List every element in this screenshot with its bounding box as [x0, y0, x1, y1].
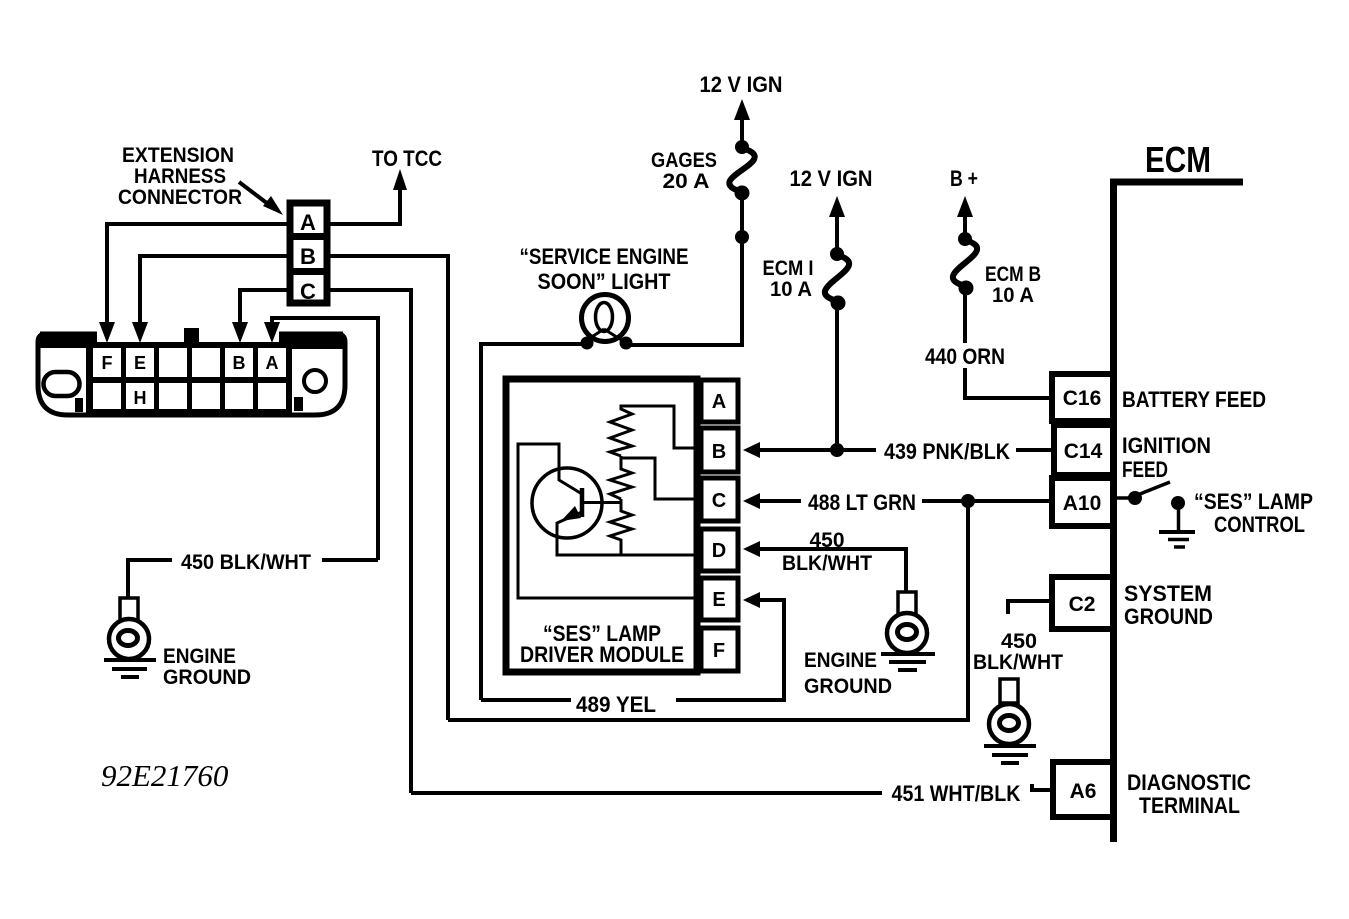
label: ECM I 10 A — [763, 257, 814, 301]
svg-text:TERMINAL: TERMINAL — [1139, 793, 1240, 818]
svg-text:A10: A10 — [1063, 492, 1102, 515]
wire: stack pin B to 12-pin connector pin E (down arrow) — [132, 256, 288, 343]
label: DIAGNOSTIC TERMINAL — [1127, 770, 1251, 818]
label: ENGINE GROUND (module) — [804, 649, 892, 698]
svg-text:10 A: 10 A — [992, 284, 1034, 307]
wire: up arrow to 12 V IGN (ECM I) — [829, 196, 845, 255]
label: "SERVICE ENGINE SOON" LIGHT — [520, 244, 689, 294]
svg-text:A: A — [266, 353, 279, 373]
wire: resistor top to module pin B — [621, 406, 701, 448]
svg-text:450: 450 — [810, 529, 845, 552]
svg-text:488 LT GRN: 488 LT GRN — [808, 490, 916, 515]
svg-text:489 YEL: 489 YEL — [576, 692, 656, 717]
svg-text:TO TCC: TO TCC — [372, 146, 442, 171]
svg-text:C2: C2 — [1069, 593, 1096, 616]
wire: extension connector pin A to TO TCC (with up arrow) — [329, 169, 407, 224]
wire 451 WHT/BLK: extension pin C to ECM pin A6 — [411, 784, 1053, 793]
svg-text:FEED: FEED — [1122, 457, 1168, 482]
svg-text:12 V IGN: 12 V IGN — [790, 166, 873, 191]
svg-text:BATTERY FEED: BATTERY FEED — [1122, 387, 1266, 412]
svg-text:D: D — [712, 540, 726, 562]
svg-text:GAGES: GAGES — [651, 149, 717, 172]
svg-text:440 ORN: 440 ORN — [925, 344, 1005, 369]
label: 450 BLK/WHT (module) — [782, 529, 872, 575]
wire: 450 BLK/WHT label wire (left) — [128, 560, 378, 598]
label: SYSTEM GROUND — [1124, 581, 1213, 629]
svg-text:EXTENSION: EXTENSION — [122, 144, 234, 167]
svg-text:B: B — [300, 244, 316, 269]
svg-text:450 BLK/WHT: 450 BLK/WHT — [181, 551, 311, 574]
wire: stack pin B right to 489/488 junction loop — [329, 256, 448, 720]
wire 489 YEL: module pin E to bulb loop — [481, 592, 784, 700]
ECM pin C14 — [1054, 425, 1113, 475]
switch to ground on A10 ("SES" lamp control) — [1113, 482, 1195, 547]
engine ground symbol G2 — [881, 592, 935, 670]
wire: up arrow to B+ — [957, 196, 973, 240]
label: "SES" LAMP CONTROL — [1194, 489, 1313, 537]
resistor R1 (top, in module) — [610, 406, 632, 456]
ECM pin C2 — [1052, 577, 1113, 629]
fuse ECM I 10 A — [825, 247, 849, 311]
svg-text:12 V IGN: 12 V IGN — [700, 72, 783, 97]
wire 440 ORN: fuse ECM B down to ECM pin C16 — [965, 288, 1052, 398]
svg-text:ECM: ECM — [1145, 139, 1211, 180]
ECM pin A6 — [1053, 762, 1113, 817]
svg-text:B +: B + — [950, 166, 978, 191]
svg-text:B: B — [233, 353, 246, 373]
svg-text:CONNECTOR: CONNECTOR — [118, 186, 242, 209]
svg-text:DRIVER MODULE: DRIVER MODULE — [520, 642, 684, 667]
svg-text:20 A: 20 A — [663, 170, 710, 193]
svg-text:SYSTEM: SYSTEM — [1124, 581, 1212, 606]
module pin B — [701, 428, 738, 472]
transistor Q1 (NPN, in module) — [532, 468, 602, 538]
module pin A — [701, 380, 738, 422]
resistor R2 (middle, in module) — [610, 456, 632, 499]
wire: bulb right leg up to GAGES fuse — [626, 195, 742, 345]
svg-text:F: F — [713, 640, 725, 662]
svg-text:GROUND: GROUND — [163, 666, 251, 689]
svg-text:H: H — [134, 388, 147, 408]
svg-text:CONTROL: CONTROL — [1214, 512, 1305, 537]
svg-text:GROUND: GROUND — [1124, 604, 1213, 629]
svg-text:C: C — [712, 490, 726, 512]
wire: bulb left leg to 489 YEL loop — [481, 344, 587, 700]
wire: transistor emitter / resistor bottom to module pin D — [557, 522, 701, 555]
svg-text:450: 450 — [1001, 630, 1037, 653]
svg-text:SOON” LIGHT: SOON” LIGHT — [538, 269, 672, 294]
pointer arrow to extension harness connector — [239, 182, 283, 215]
svg-text:ENGINE: ENGINE — [804, 649, 877, 672]
svg-text:A: A — [712, 391, 726, 413]
svg-text:GROUND: GROUND — [804, 675, 892, 698]
svg-text:B: B — [712, 441, 726, 463]
label: EXTENSION HARNESS CONNECTOR — [118, 144, 242, 209]
svg-text:C: C — [300, 279, 316, 304]
SES indicator lamp (bulb) — [581, 295, 633, 350]
ECM pin C16 — [1052, 374, 1113, 421]
module pin F — [701, 628, 738, 671]
svg-text:A6: A6 — [1070, 780, 1097, 803]
wire: transistor base to resistor chain — [582, 501, 621, 504]
svg-text:F: F — [102, 353, 113, 373]
svg-text:“SERVICE ENGINE: “SERVICE ENGINE — [520, 244, 689, 269]
wire: ECM I fuse down to 439 PNK/BLK junction — [835, 303, 839, 450]
svg-text:C14: C14 — [1064, 440, 1103, 463]
label: ECM B 10 A — [985, 263, 1041, 307]
resistor R3 (bottom, in module) — [610, 499, 632, 555]
svg-text:ECM B: ECM B — [985, 263, 1041, 286]
svg-text:IGNITION: IGNITION — [1122, 433, 1211, 458]
connector stack pins A/B/C (extension harness connector) — [287, 203, 330, 304]
svg-text:BLK/WHT: BLK/WHT — [973, 651, 1063, 674]
svg-text:451 WHT/BLK: 451 WHT/BLK — [892, 781, 1021, 806]
label: 450 BLK/WHT (C2) — [973, 630, 1063, 674]
engine ground symbol G3 — [984, 679, 1036, 763]
ECM pin A10 — [1052, 478, 1113, 526]
svg-text:HARNESS: HARNESS — [134, 165, 226, 188]
wire: stack pin A to 12-pin connector pin F (down arrow) — [99, 224, 288, 343]
label: ENGINE GROUND (left) — [163, 645, 251, 689]
engine ground symbol G1 — [104, 598, 156, 677]
wire 450 BLK/WHT: module pin D to engine ground G2 — [743, 541, 906, 592]
wire: extension pin B loop to 488 junction — [448, 501, 968, 720]
module pin E — [701, 578, 738, 620]
wire: stack pin C right down to 451 WHT/BLK — [329, 290, 411, 793]
svg-text:439 PNK/BLK: 439 PNK/BLK — [884, 439, 1010, 464]
wire 439 PNK/BLK: ECM I fuse to module pin B and ECM pin C14 — [743, 442, 1052, 458]
svg-text:ENGINE: ENGINE — [163, 645, 236, 668]
wire: up arrow to 12 V IGN — [734, 99, 750, 148]
fuse GAGES 20 A — [729, 140, 754, 201]
svg-text:E: E — [134, 353, 146, 373]
wire: C2 to engine ground G3 (450 BLK/WHT) — [1008, 601, 1052, 614]
SES lamp driver module U1 — [506, 379, 697, 672]
12-pin extension harness connector body — [38, 328, 345, 415]
svg-text:ECM I: ECM I — [763, 257, 814, 280]
wire 488 LT GRN: module pin C to ECM pin A10 — [743, 493, 1052, 509]
label: IGNITION FEED — [1122, 433, 1211, 482]
svg-text:DIAGNOSTIC: DIAGNOSTIC — [1127, 770, 1251, 795]
ECM boundary line — [1110, 182, 1243, 842]
junction dot on lamp feed — [735, 230, 749, 244]
svg-text:“SES” LAMP: “SES” LAMP — [1194, 489, 1313, 514]
module pin C — [701, 478, 738, 521]
svg-text:10 A: 10 A — [770, 278, 812, 301]
svg-text:C16: C16 — [1063, 387, 1102, 410]
svg-text:BLK/WHT: BLK/WHT — [782, 552, 872, 575]
wire: R1/R2 tap to module pin C — [621, 458, 701, 499]
wire: transistor collector loop to module pin E — [518, 444, 701, 598]
svg-text:A: A — [300, 210, 316, 235]
module pin D — [701, 529, 738, 571]
svg-text:E: E — [712, 589, 725, 611]
svg-text:92E21760: 92E21760 — [101, 758, 229, 793]
label: GAGES 20 A — [651, 149, 717, 193]
wire: 12-pin connector pin A to 450 BLK/WHT (down arrow into pin A) — [264, 318, 378, 560]
wire: stack pin C to 12-pin connector pin B (down arrow) — [232, 290, 288, 343]
fuse ECM B 10 A — [953, 232, 977, 296]
